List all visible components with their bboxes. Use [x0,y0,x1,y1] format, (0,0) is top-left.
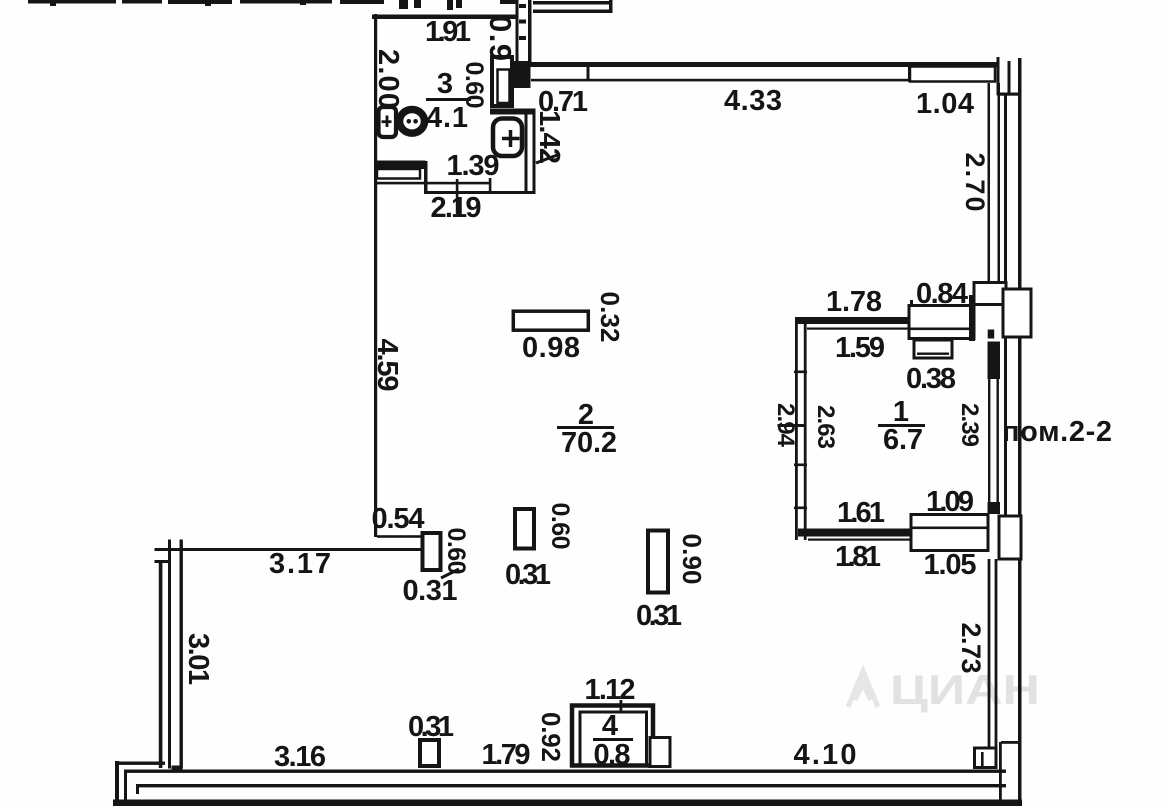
svg-text:1.39: 1.39 [447,150,500,182]
svg-text:1.78: 1.78 [826,286,882,318]
svg-text:4.10: 4.10 [794,739,857,771]
svg-text:1.81: 1.81 [835,541,881,573]
svg-text:0.60: 0.60 [546,503,574,550]
svg-text:0.98: 0.98 [522,332,580,364]
svg-text:2.70: 2.70 [960,153,990,212]
svg-text:0.54: 0.54 [372,503,425,535]
svg-text:2.19: 2.19 [431,192,482,224]
svg-text:2.94: 2.94 [772,403,799,448]
svg-text:0.9: 0.9 [483,15,518,61]
svg-text:3: 3 [437,68,453,100]
svg-text:1.04: 1.04 [916,88,974,120]
svg-text:2.00: 2.00 [372,49,404,109]
svg-text:1.59: 1.59 [835,332,885,364]
svg-text:0.60: 0.60 [460,62,488,109]
svg-text:1.05: 1.05 [924,549,977,581]
svg-text:0.60: 0.60 [442,528,470,575]
svg-text:0.90: 0.90 [677,534,707,585]
svg-text:3.01: 3.01 [182,633,214,685]
svg-text:0.31: 0.31 [408,711,454,743]
svg-text:70.2: 70.2 [561,427,617,459]
svg-text:2.39: 2.39 [956,403,983,447]
svg-text:4.59: 4.59 [371,339,403,392]
svg-text:2.63: 2.63 [812,405,839,449]
svg-text:4.33: 4.33 [724,85,782,117]
svg-text:0.8: 0.8 [594,739,631,771]
svg-text:0.84: 0.84 [916,278,968,310]
svg-text:1.42: 1.42 [533,110,565,164]
svg-text:0.31: 0.31 [505,559,551,591]
svg-text:0.31: 0.31 [403,575,458,607]
svg-text:3.16: 3.16 [274,741,326,773]
svg-text:1.12: 1.12 [585,674,636,706]
svg-text:1.79: 1.79 [482,739,531,771]
svg-text:2.73: 2.73 [956,623,986,674]
svg-text:0.38: 0.38 [906,363,956,395]
svg-text:0.32: 0.32 [595,292,625,343]
svg-text:6.7: 6.7 [883,424,923,456]
svg-text:0.92: 0.92 [536,712,566,762]
svg-text:3.17: 3.17 [269,548,331,580]
svg-text:1.61: 1.61 [837,497,885,529]
svg-text:1.09: 1.09 [926,486,974,518]
svg-text:4: 4 [602,710,618,742]
svg-text:пом.2-2: пом.2-2 [1002,416,1112,448]
svg-text:0.31: 0.31 [636,600,682,632]
svg-text:1.91: 1.91 [425,16,471,48]
